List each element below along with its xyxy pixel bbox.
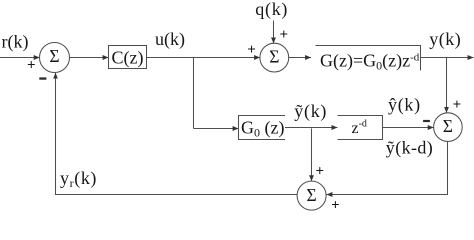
svg-text:G(z)=G0(z)z-d: G(z)=G0(z)z-d bbox=[320, 50, 420, 72]
wire y-tilde branch down to S4 bbox=[311, 129, 313, 182]
wire S1 to C(z) bbox=[70, 57, 109, 59]
svg-text:+: + bbox=[453, 97, 462, 113]
svg-text:+: + bbox=[27, 58, 36, 74]
svg-text:+: + bbox=[331, 197, 340, 211]
summing junction S1 bbox=[40, 43, 70, 73]
svg-text:Σ: Σ bbox=[269, 47, 279, 67]
wire G(z) output to y(k) bbox=[421, 57, 474, 59]
svg-text:G0 (z): G0 (z) bbox=[241, 118, 284, 140]
svg-text:u(k): u(k) bbox=[155, 29, 185, 50]
summing junction S4 bbox=[297, 181, 326, 210]
block G0(z) bbox=[239, 116, 286, 140]
svg-text:Σ: Σ bbox=[307, 185, 317, 205]
svg-text:+: + bbox=[316, 163, 325, 179]
svg-text:ŷ(k): ŷ(k) bbox=[388, 95, 421, 116]
wire S2 to G(z) block bbox=[289, 57, 312, 59]
wire branch y(k) down to S3 bbox=[446, 58, 448, 113]
block z^-d bbox=[338, 116, 383, 140]
svg-text:ỹ(k-d): ỹ(k-d) bbox=[386, 137, 433, 158]
wire branch at u(k) node down bbox=[193, 58, 195, 129]
block C(z) bbox=[109, 46, 147, 69]
wire S3 down and left to S4 bbox=[327, 141, 448, 194]
wire input r(k) bbox=[0, 57, 40, 59]
wire C(z) to S2 bbox=[147, 57, 261, 59]
wire q(k) into S2 bbox=[273, 21, 275, 44]
svg-text:y(k): y(k) bbox=[429, 29, 461, 50]
svg-text:yr(k): yr(k) bbox=[60, 168, 97, 190]
summing junction S2 bbox=[260, 43, 289, 72]
svg-text:+: + bbox=[280, 27, 289, 43]
wire z^-d to S3 bbox=[383, 127, 434, 129]
wire feedback S4 to S1 bbox=[56, 73, 298, 195]
minus sign at S3 left bbox=[423, 120, 430, 122]
svg-text:z: z bbox=[352, 120, 359, 137]
minus sign at S1 feedback bbox=[39, 77, 46, 79]
svg-text:Σ: Σ bbox=[49, 46, 59, 66]
block G(z)=G0(z)z^-d bbox=[316, 46, 421, 73]
svg-text:Σ: Σ bbox=[443, 116, 453, 136]
svg-text:C(z): C(z) bbox=[112, 48, 144, 69]
wire G0(z) to z^-d bbox=[285, 127, 337, 129]
svg-text:-d: -d bbox=[359, 118, 367, 129]
svg-text:q(k): q(k) bbox=[255, 0, 288, 20]
svg-text:r(k): r(k) bbox=[2, 31, 29, 52]
svg-text:ỹ(k): ỹ(k) bbox=[294, 101, 327, 122]
summing junction S3 bbox=[434, 113, 463, 142]
wire branch to G0(z) bbox=[194, 128, 239, 130]
svg-text:+: + bbox=[247, 42, 256, 58]
